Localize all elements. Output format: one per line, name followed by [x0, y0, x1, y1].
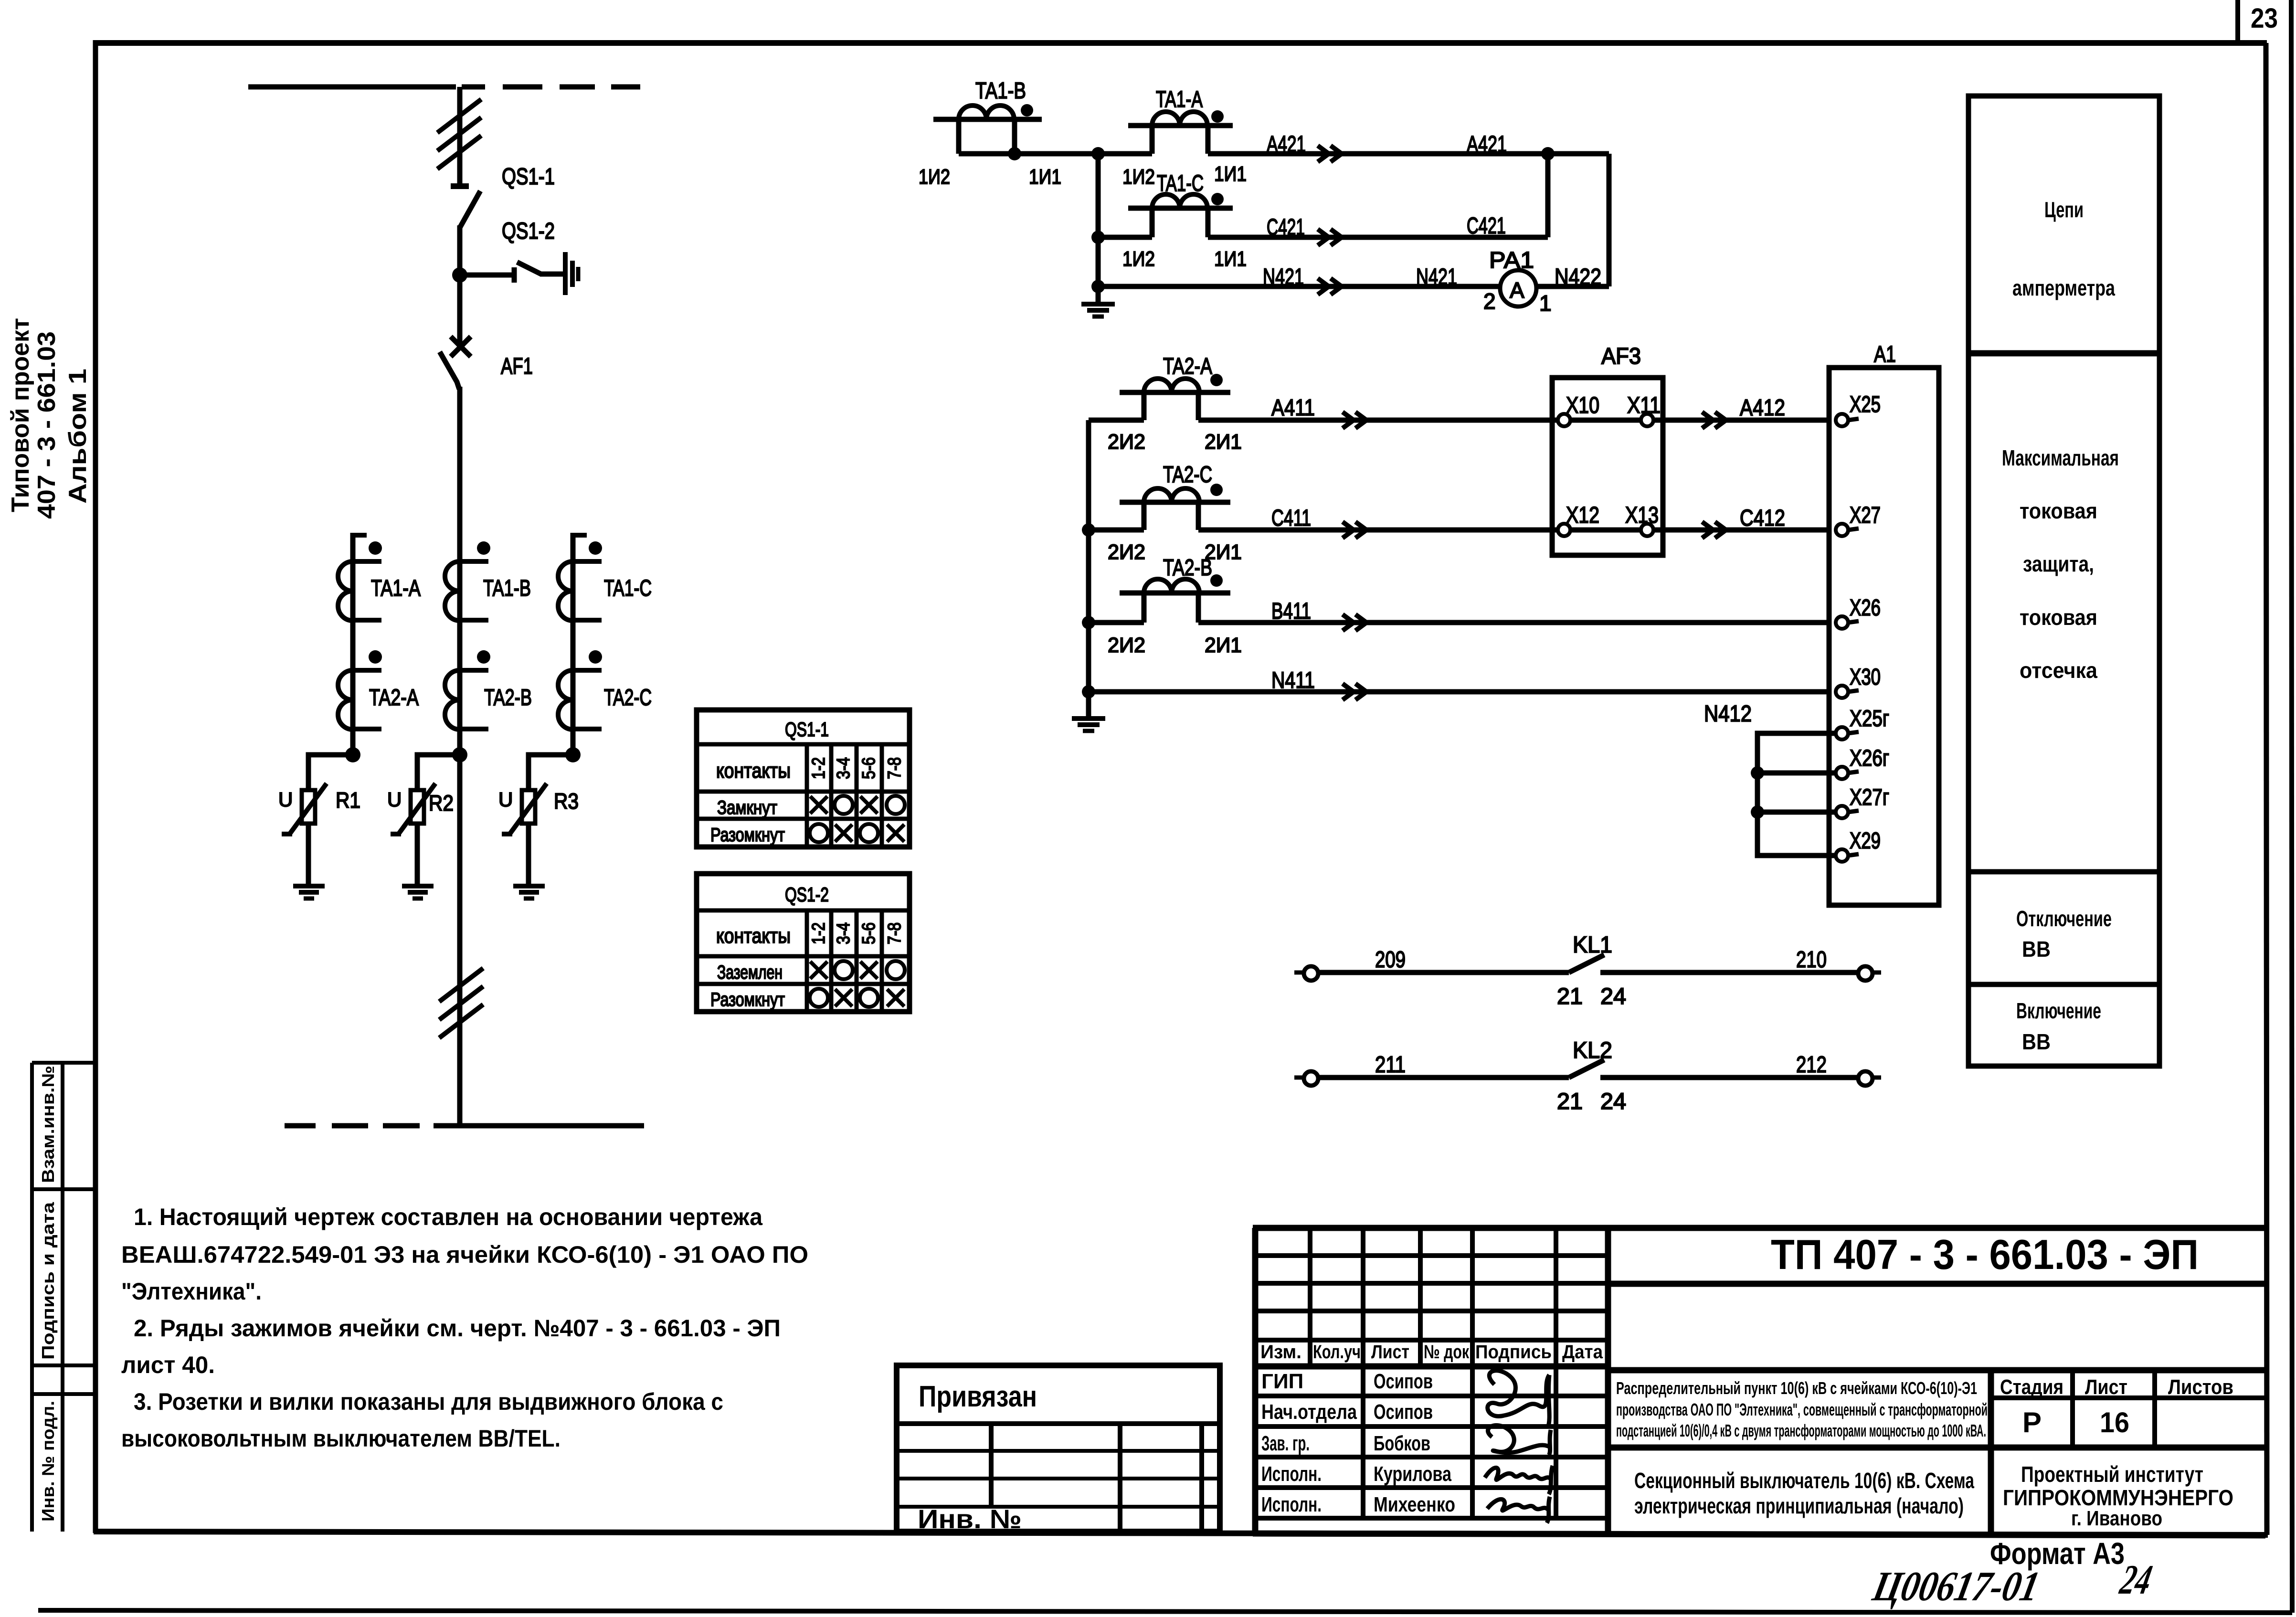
- current transformer TA1-A (ammeter circuit): [1128, 110, 1233, 154]
- terminal X25г: [1836, 727, 1859, 740]
- current transformer TA2-C: [558, 650, 602, 729]
- svg-text:TA2-A: TA2-A: [1163, 354, 1212, 379]
- node: branch A to R1 junction: [345, 747, 360, 762]
- terminal X29: [1836, 849, 1859, 862]
- svg-text:QS1-1: QS1-1: [785, 718, 829, 740]
- drawing frame top border: [94, 40, 2267, 46]
- AF1 breaker X mark: [451, 337, 471, 357]
- svg-text:Подпись и дата: Подпись и дата: [38, 1202, 58, 1360]
- svg-text:Р: Р: [2022, 1406, 2042, 1438]
- junction column vertical: [1096, 154, 1101, 304]
- svg-text:подстанцией 10(6)/0,4 кВ с дву: подстанцией 10(6)/0,4 кВ с двумя трансфо…: [1616, 1421, 1986, 1440]
- top bus short segment: [462, 85, 485, 90]
- svg-text:C421: C421: [1467, 213, 1506, 239]
- svg-text:212: 212: [1796, 1052, 1827, 1078]
- wire A421: [1208, 151, 1609, 157]
- ground under R1: [293, 886, 325, 898]
- svg-text:Исполн.: Исполн.: [1261, 1462, 1322, 1486]
- terminal X27: [1836, 524, 1859, 536]
- svg-text:TA1-B: TA1-B: [975, 78, 1026, 104]
- left margin stamp column: [32, 1063, 95, 1532]
- svg-text:X30: X30: [1850, 665, 1881, 690]
- terminal X27г: [1836, 806, 1859, 818]
- svg-text:16: 16: [2100, 1406, 2129, 1438]
- current transformer TA1-C (ammeter circuit): [1128, 193, 1233, 237]
- svg-text:2И2: 2И2: [1108, 540, 1145, 564]
- node at N421 tap: [1091, 280, 1105, 293]
- svg-text:Кол.уч: Кол.уч: [1313, 1342, 1361, 1363]
- svg-text:Замкнут: Замкнут: [717, 797, 777, 818]
- svg-text:5-6: 5-6: [859, 922, 879, 944]
- svg-text:контакты: контакты: [716, 924, 791, 948]
- current transformer TA1-A: [338, 541, 382, 621]
- svg-text:21: 21: [1557, 1089, 1583, 1114]
- svg-text:отсечка: отсечка: [2020, 658, 2097, 683]
- sheet outer right edge: [2291, 0, 2292, 1613]
- svg-text:"Элтехника".: "Элтехника".: [121, 1278, 262, 1305]
- svg-text:X25г: X25г: [1850, 706, 1889, 731]
- terminal X26: [1836, 616, 1859, 629]
- svg-text:211: 211: [1375, 1052, 1406, 1078]
- wire C421 riser to A421: [1545, 154, 1551, 237]
- wire: bus drop to QS1-1: [457, 87, 463, 186]
- node at C421 tap: [1091, 231, 1105, 244]
- page number box 23 divider: [2235, 0, 2240, 44]
- three-phase slash marks on feeder bottom: [439, 968, 483, 1002]
- svg-text:TA1-A: TA1-A: [371, 576, 421, 601]
- svg-text:Привязан: Привязан: [919, 1380, 1037, 1413]
- relay contact KL1: [1294, 955, 1881, 981]
- svg-text:Исполн.: Исполн.: [1261, 1493, 1322, 1516]
- svg-text:U: U: [387, 788, 402, 811]
- wire: junction A to R1: [308, 755, 353, 791]
- terminal X11: [1641, 414, 1653, 426]
- svg-text:Стадия: Стадия: [2000, 1375, 2063, 1399]
- wire bracket to X27г: [1757, 810, 1836, 815]
- QS1-2 blade: [517, 262, 542, 275]
- svg-text:X27: X27: [1850, 503, 1881, 528]
- svg-text:Ц00617-01: Ц00617-01: [1869, 1564, 2043, 1610]
- QS1-1 Разомкнут row marks O X O X: [810, 824, 828, 842]
- svg-text:X25: X25: [1850, 392, 1881, 417]
- svg-text:R2: R2: [429, 791, 454, 815]
- svg-text:24: 24: [1600, 1089, 1626, 1114]
- svg-text:407 - 3 - 661.03: 407 - 3 - 661.03: [33, 331, 61, 519]
- wire A411: [1198, 418, 1558, 423]
- svg-text:7-8: 7-8: [885, 757, 905, 779]
- svg-text:Альбом 1: Альбом 1: [64, 369, 92, 504]
- wire C421: [1208, 235, 1548, 240]
- svg-text:QS1-2: QS1-2: [785, 883, 829, 906]
- svg-text:TA1-C: TA1-C: [1157, 171, 1204, 196]
- svg-text:Листов: Листов: [2168, 1375, 2233, 1399]
- wire TA1-B to junction column: [959, 151, 1098, 157]
- current transformer TA2-C (protection circuit): [1120, 484, 1230, 530]
- svg-text:N421: N421: [1416, 264, 1457, 290]
- current transformer TA2-B (protection circuit): [1120, 574, 1230, 623]
- function column box: [1968, 96, 2159, 1066]
- svg-text:Заземлен: Заземлен: [717, 962, 783, 983]
- surge arrester R2: [391, 783, 435, 885]
- svg-text:X10: X10: [1566, 393, 1599, 418]
- bottom bus solid segment: [434, 1123, 644, 1129]
- svg-text:№ док: № док: [1424, 1342, 1470, 1363]
- svg-text:2И2: 2И2: [1108, 430, 1145, 454]
- svg-text:A411: A411: [1271, 395, 1315, 421]
- svg-text:Разомкнут: Разомкнут: [710, 824, 785, 845]
- left riser to TA2-A: [1089, 418, 1144, 423]
- svg-text:7-8: 7-8: [885, 922, 905, 944]
- svg-text:24: 24: [1600, 984, 1626, 1009]
- svg-text:Осипов: Осипов: [1374, 1370, 1433, 1393]
- svg-text:Разомкнут: Разомкнут: [710, 989, 785, 1010]
- node: branch C to R3 junction: [565, 747, 581, 762]
- svg-text:QS1-1: QS1-1: [502, 164, 555, 190]
- relay contact KL2: [1294, 1060, 1881, 1086]
- svg-text:U: U: [498, 788, 513, 811]
- svg-text:Лист: Лист: [2085, 1375, 2127, 1399]
- svg-text:B411: B411: [1271, 599, 1311, 624]
- svg-text:производства ОАО ПО "Элтехника: производства ОАО ПО "Элтехника", совмеще…: [1616, 1400, 1988, 1419]
- wire A412: [1653, 418, 1829, 423]
- wire: QS1-2 branch horizontal: [460, 273, 514, 278]
- svg-text:1И1: 1И1: [1214, 162, 1247, 186]
- QS1-2 contact state table: [697, 874, 910, 1012]
- svg-text:Изм.: Изм.: [1260, 1342, 1301, 1363]
- svg-text:1И1: 1И1: [1214, 247, 1247, 271]
- svg-text:защита,: защита,: [2023, 551, 2094, 576]
- terminal X26г: [1836, 767, 1859, 779]
- svg-text:1И2: 1И2: [1122, 247, 1155, 271]
- left riser vertical: [1086, 420, 1091, 719]
- svg-text:ГИП: ГИП: [1261, 1370, 1303, 1393]
- svg-text:AF3: AF3: [1601, 344, 1641, 369]
- svg-text:Максимальная: Максимальная: [2002, 445, 2119, 470]
- QS1-1 contact state table: [697, 710, 910, 847]
- bottom bus dashes: [285, 1123, 316, 1129]
- svg-text:QS1-2: QS1-2: [502, 219, 555, 244]
- svg-text:Нач.отдела: Нач.отдела: [1261, 1400, 1357, 1424]
- svg-text:Цепи: Цепи: [2044, 197, 2084, 222]
- QS1-2 fixed contact tick: [512, 267, 517, 283]
- node on TA1-B right lead: [1008, 147, 1021, 160]
- current transformer TA2-B: [445, 650, 490, 729]
- svg-text:A412: A412: [1740, 395, 1785, 421]
- wire C412: [1653, 528, 1829, 533]
- node bracket X26г: [1751, 766, 1764, 780]
- svg-text:Бобков: Бобков: [1374, 1432, 1430, 1455]
- wire bracket to X26г: [1757, 771, 1836, 776]
- svg-text:X26: X26: [1850, 595, 1881, 621]
- wire: QS1-2 to earth: [541, 272, 563, 277]
- svg-text:C411: C411: [1271, 506, 1311, 531]
- surge arrester R1: [282, 783, 327, 885]
- svg-text:5-6: 5-6: [859, 757, 879, 779]
- svg-text:Зав. гр.: Зав. гр.: [1261, 1432, 1310, 1455]
- terminal block A1: [1829, 368, 1939, 905]
- wire ammeter to right loop: [1536, 284, 1609, 289]
- svg-text:KL1: KL1: [1573, 932, 1612, 958]
- wire B411: [1198, 620, 1829, 625]
- svg-text:Дата: Дата: [1562, 1342, 1603, 1363]
- node bracket X27г: [1751, 805, 1764, 819]
- svg-text:2И2: 2И2: [1108, 634, 1145, 657]
- svg-text:A: A: [1510, 278, 1524, 303]
- svg-text:токовая: токовая: [2020, 498, 2097, 523]
- node A421/C421 tie: [1541, 147, 1555, 160]
- svg-text:TA2-C: TA2-C: [1163, 462, 1212, 487]
- surge arrester R3: [502, 783, 547, 885]
- svg-text:Инв. № подл.: Инв. № подл.: [38, 1401, 58, 1522]
- svg-text:Инв. №: Инв. №: [918, 1504, 1022, 1534]
- terminal X12: [1558, 524, 1570, 536]
- svg-text:TA2-C: TA2-C: [604, 685, 652, 710]
- QS1-1 blade: [460, 191, 480, 228]
- svg-text:3-4: 3-4: [834, 922, 854, 944]
- svg-text:R1: R1: [336, 788, 360, 813]
- svg-text:R3: R3: [554, 789, 579, 814]
- node: QS1-2 tap junction: [452, 267, 467, 283]
- wire: QS1-1 to QS1-2 junction: [457, 225, 463, 348]
- signature scribbles: [1485, 1371, 1553, 1523]
- ammeter PA1: [1500, 270, 1536, 306]
- Привязан stamp table: [897, 1365, 1220, 1532]
- svg-text:C412: C412: [1740, 506, 1785, 531]
- wire right loop vertical: [1607, 154, 1612, 286]
- current transformer TA1-C: [558, 541, 602, 621]
- terminal X13: [1641, 524, 1653, 536]
- wire N412 bracket: [1757, 733, 1836, 856]
- phase branch C vertical: [571, 533, 576, 759]
- svg-text:X11: X11: [1627, 393, 1661, 418]
- top bus solid segment: [248, 85, 456, 90]
- node: feeder to R2 junction: [452, 747, 467, 762]
- svg-text:21: 21: [1557, 984, 1583, 1009]
- ground at ammeter circuit junction column: [1081, 304, 1115, 317]
- wire: AF1 down to TA group: [457, 387, 463, 759]
- wire X10 to X11: [1570, 418, 1641, 423]
- wire N421: [1098, 284, 1501, 289]
- svg-text:Осипов: Осипов: [1374, 1400, 1433, 1424]
- svg-text:2. Ряды зажимов ячейки см. чер: 2. Ряды зажимов ячейки см. черт. №407 - …: [134, 1315, 781, 1342]
- svg-text:г. Иваново: г. Иваново: [2071, 1507, 2162, 1530]
- svg-text:X12: X12: [1566, 503, 1599, 528]
- svg-text:N412: N412: [1704, 701, 1752, 727]
- branch C top tick: [573, 533, 587, 538]
- svg-text:Типовой проект: Типовой проект: [7, 318, 34, 512]
- svg-text:Подпись: Подпись: [1475, 1342, 1552, 1363]
- svg-text:TA1-C: TA1-C: [604, 576, 652, 601]
- svg-text:U: U: [278, 788, 293, 811]
- svg-text:X27г: X27г: [1850, 785, 1889, 810]
- svg-text:контакты: контакты: [716, 759, 791, 782]
- svg-text:AF1: AF1: [501, 354, 533, 379]
- wire X12 to X13: [1570, 528, 1641, 533]
- svg-text:210: 210: [1796, 947, 1827, 972]
- svg-text:Секционный выключатель 10(6) к: Секционный выключатель 10(6) кВ. Схема: [1634, 1468, 1974, 1493]
- terminal X25: [1836, 414, 1859, 426]
- svg-text:KL2: KL2: [1573, 1038, 1612, 1063]
- svg-text:2И1: 2И1: [1205, 430, 1242, 454]
- svg-text:TA2-B: TA2-B: [1163, 555, 1212, 581]
- title designation cell: [1608, 1284, 2265, 1534]
- phase branch A vertical: [350, 533, 356, 759]
- svg-text:23: 23: [2251, 3, 2278, 34]
- svg-text:Распределительный пункт 10(6): Распределительный пункт 10(6) кВ с ячейк…: [1616, 1378, 1977, 1398]
- terminal X30: [1836, 686, 1859, 698]
- node riser at N411: [1082, 685, 1095, 698]
- node junction column top: [1091, 147, 1105, 160]
- current transformer TA1-B: [445, 541, 490, 621]
- top bus dashes: [503, 85, 542, 90]
- revision table: [1253, 1228, 2265, 1535]
- svg-text:1-2: 1-2: [809, 757, 829, 779]
- svg-text:TA2-B: TA2-B: [484, 685, 532, 710]
- svg-text:3-4: 3-4: [834, 757, 854, 779]
- svg-text:PA1: PA1: [1489, 248, 1534, 273]
- svg-text:2: 2: [1483, 289, 1496, 314]
- svg-text:1И1: 1И1: [1029, 165, 1061, 189]
- svg-text:A1: A1: [1874, 342, 1896, 367]
- svg-text:A421: A421: [1267, 132, 1306, 157]
- svg-text:Взам.инв.№: Взам.инв.№: [38, 1066, 58, 1183]
- left riser to TA2-C: [1089, 528, 1144, 533]
- svg-text:A421: A421: [1467, 132, 1507, 157]
- drawing frame left border: [93, 40, 98, 1533]
- svg-text:ВЕАШ.674722.549-01 Э3 на ячейк: ВЕАШ.674722.549-01 Э3 на ячейки КСО-6(10…: [121, 1241, 808, 1268]
- svg-text:1: 1: [1539, 291, 1552, 316]
- ground at protection riser: [1072, 719, 1105, 731]
- svg-text:N411: N411: [1271, 668, 1315, 693]
- QS1-2 Заземлен row marks X O X O: [810, 962, 827, 979]
- sheet outer bottom edge: [38, 1610, 2292, 1613]
- AF1 blade: [440, 352, 459, 389]
- svg-text:токовая: токовая: [2020, 605, 2097, 630]
- svg-text:ВВ: ВВ: [2022, 1029, 2051, 1054]
- svg-text:Михеенко: Михеенко: [1374, 1493, 1455, 1516]
- svg-text:1. Настоящий чертеж составлен: 1. Настоящий чертеж составлен на основан…: [134, 1204, 763, 1230]
- svg-text:3. Розетки и вилки показаны дл: 3. Розетки и вилки показаны для выдвижно…: [134, 1388, 723, 1415]
- QS1-2 Разомкнут row marks O X O X: [810, 989, 828, 1007]
- svg-text:ВВ: ВВ: [2022, 937, 2051, 962]
- svg-text:лист 40.: лист 40.: [121, 1352, 215, 1378]
- svg-text:Включение: Включение: [2016, 998, 2101, 1023]
- wire junction column to TA1-A: [1098, 151, 1152, 157]
- svg-text:1-2: 1-2: [809, 922, 829, 944]
- wire junction column to TA1-C: [1098, 235, 1152, 240]
- node riser at B411: [1082, 616, 1095, 629]
- svg-text:209: 209: [1375, 947, 1406, 972]
- drawing frame right border: [2266, 43, 2267, 1535]
- svg-text:Проектный институт: Проектный институт: [2021, 1462, 2203, 1487]
- svg-text:TA1-B: TA1-B: [483, 576, 531, 601]
- svg-text:TA1-A: TA1-A: [1156, 87, 1203, 112]
- left riser to TA2-B: [1089, 620, 1144, 625]
- wire: feeder lower section: [457, 755, 463, 1126]
- terminal X10: [1558, 414, 1570, 426]
- svg-text:высоковольтным выключателем ВВ: высоковольтным выключателем ВВ/TEL.: [121, 1425, 561, 1452]
- wire C411: [1198, 528, 1558, 533]
- three-phase slash marks on feeder top: [437, 99, 481, 133]
- drawing frame bottom border: [94, 1532, 2268, 1535]
- svg-text:TA2-A: TA2-A: [369, 685, 419, 710]
- earth symbol at QS1-2: [563, 252, 568, 295]
- svg-text:амперметра: амперметра: [2012, 275, 2115, 300]
- svg-text:C421: C421: [1267, 215, 1305, 240]
- relay block AF3: [1552, 378, 1663, 555]
- svg-text:электрическая принципиальная (: электрическая принципиальная (начало): [1634, 1493, 1964, 1518]
- svg-text:Курилова: Курилова: [1374, 1462, 1451, 1486]
- svg-text:2И1: 2И1: [1205, 634, 1242, 657]
- svg-text:X29: X29: [1850, 828, 1881, 854]
- current transformer TA2-A (protection circuit): [1120, 374, 1230, 420]
- QS1-1 fixed contact bar: [451, 183, 469, 189]
- current transformer TA1-B (ammeter circuit): [933, 104, 1042, 154]
- current transformer TA2-A: [338, 650, 382, 729]
- node riser at C411: [1082, 523, 1095, 537]
- wire: junction C to R3: [529, 755, 573, 791]
- svg-text:Лист: Лист: [1371, 1342, 1409, 1363]
- svg-text:X13: X13: [1625, 503, 1659, 528]
- ground under R3: [513, 886, 545, 898]
- svg-text:Отключение: Отключение: [2016, 906, 2112, 931]
- svg-text:1И2: 1И2: [1122, 165, 1155, 189]
- svg-text:ТП 407 - 3 - 661.03 - ЭП: ТП 407 - 3 - 661.03 - ЭП: [1771, 1231, 2199, 1278]
- svg-text:1И2: 1И2: [919, 165, 950, 189]
- svg-text:N422: N422: [1555, 264, 1601, 290]
- wire: junction B to R2: [417, 755, 460, 791]
- branch A top tick: [353, 533, 367, 538]
- ground under R2: [402, 886, 434, 898]
- svg-text:X26г: X26г: [1850, 746, 1889, 771]
- svg-text:N421: N421: [1263, 264, 1304, 290]
- QS1-1 Замкнут row marks X O X O: [810, 796, 827, 814]
- wire N411: [1089, 689, 1829, 695]
